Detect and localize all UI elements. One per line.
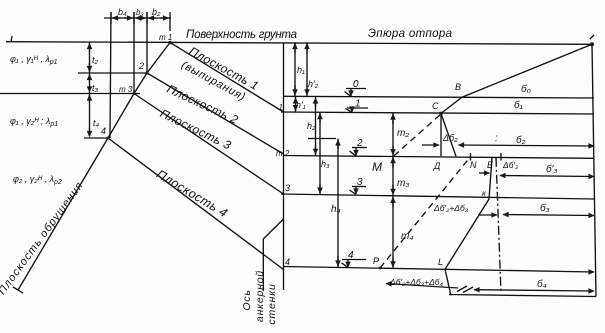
svg-text:анкерной: анкерной [254, 270, 266, 322]
dash-dot line [496, 158, 501, 294]
corner tiny mark [590, 35, 594, 39]
b dimension line [104, 17, 171, 19]
svg-text:Δб₂: Δб₂ [442, 133, 458, 143]
svg-text:2: 2 [138, 61, 144, 71]
m dimension vertical [392, 113, 394, 269]
svg-text:m₃: m₃ [397, 178, 409, 189]
leader arrow from delta label to boundary [478, 214, 497, 216]
point P dot [379, 267, 382, 270]
b dimension ticks [110, 12, 112, 24]
b extension vertical to point 4 [110, 12, 111, 138]
svg-text:б′₃: б′₃ [546, 163, 558, 175]
svg-text:б₀: б₀ [521, 83, 531, 95]
svg-text:б₁: б₁ [514, 99, 523, 111]
pressure envelope B line [441, 44, 592, 113]
delta sigma2prime dimension arrow [479, 172, 490, 174]
sigma3 dimension line [503, 215, 594, 216]
svg-text::: : [495, 133, 498, 144]
corner A dot [590, 42, 594, 46]
svg-text:т 2: т 2 [276, 149, 290, 158]
point C dot [439, 112, 443, 116]
svg-text:t₄: t₄ [93, 118, 100, 128]
collapse plane end tick [13, 287, 23, 293]
collapse plane line (Плоскость обрушения) [18, 43, 170, 291]
point т1 dot [168, 41, 171, 44]
sigma3prime dimension line [500, 176, 594, 177]
soil layer boundary y=93.5 [0, 93, 140, 95]
svg-text:Δб′₂: Δб′₂ [502, 160, 519, 170]
svg-text:1: 1 [355, 99, 361, 110]
svg-text:Д: Д [433, 161, 441, 171]
ground surface line [6, 42, 592, 45]
svg-text:h₃: h₃ [321, 159, 330, 169]
svg-text:3: 3 [357, 177, 363, 188]
svg-text:Эпюра отпора: Эпюра отпора [368, 28, 452, 40]
svg-text:h₁: h₁ [297, 65, 305, 75]
svg-text:1: 1 [279, 103, 283, 112]
svg-text:0: 0 [353, 79, 359, 90]
svg-text:b₃: b₃ [136, 8, 144, 17]
bottom line [449, 295, 596, 297]
boundary curve E-K-L [445, 158, 492, 296]
level 3 line [281, 194, 594, 199]
level 4 line with right arrow [284, 267, 595, 273]
tick at dash-dot on level 2 [500, 153, 502, 161]
svg-text:φ₁ , γ₁ᴴ , λр1: φ₁ , γ₁ᴴ , λр1 [10, 54, 58, 66]
svg-text:В: В [455, 82, 461, 92]
h3 dimension vertical [319, 112, 321, 194]
svg-text:h₂: h₂ [307, 121, 316, 131]
left edge tick [11, 36, 12, 42]
svg-text:Δб′₂+Δб₃+Δб₄: Δб′₂+Δб₃+Δб₄ [389, 277, 444, 287]
level marker 1 [347, 107, 368, 109]
b extension vertical to point т3 [133, 12, 135, 94]
svg-text:m₄: m₄ [401, 231, 413, 242]
plane 1 line [170, 42, 284, 112]
plane 4 line with jog [108, 138, 284, 270]
svg-text:h′₂: h′₂ [308, 79, 319, 89]
level 1 line [281, 112, 594, 114]
short reference line y=138.5 [308, 138, 336, 140]
b extension vertical to point 2 [146, 12, 148, 73]
svg-text:Плоскость 4: Плоскость 4 [154, 167, 230, 220]
svg-text:Ось: Ось [241, 289, 253, 310]
svg-text:б₃: б₃ [540, 202, 550, 214]
svg-text:С: С [432, 101, 439, 111]
svg-text:b₂: b₂ [152, 7, 161, 17]
C vertical to D [440, 113, 442, 156]
sigma4 dimension line [474, 290, 594, 291]
point 4 dot [107, 137, 110, 140]
svg-text:4: 4 [285, 257, 290, 267]
right border vertical [592, 44, 596, 296]
svg-text:Δб′₂+Δб₃: Δб′₂+Δб₃ [433, 203, 469, 213]
svg-text:т 1: т 1 [159, 33, 172, 42]
svg-text:N: N [470, 160, 477, 170]
svg-text:б₂: б₂ [516, 134, 526, 146]
level 0 line [284, 96, 595, 98]
plane 2 line [147, 73, 284, 154]
svg-text:t₃: t₃ [92, 83, 99, 93]
svg-text:Е: Е [487, 160, 494, 170]
h1 dimension vertical [294, 42, 296, 96]
b dimension arrows [113, 17, 122, 19]
svg-text:b₄: b₄ [118, 7, 127, 17]
b extension vertical at apex [169, 12, 171, 31]
svg-text:L: L [438, 257, 443, 267]
level marker 4 [342, 259, 366, 261]
svg-text:М: М [372, 160, 382, 174]
svg-text:б₄: б₄ [537, 278, 547, 290]
level marker 3 [352, 186, 366, 188]
svg-text:h₄: h₄ [331, 204, 341, 215]
svg-text:Плоскость обрушения: Плоскость обрушения [0, 180, 86, 297]
point т3 dot [133, 92, 136, 95]
svg-text:φ₂ , γ₂ᴴ , λр2: φ₂ , γ₂ᴴ , λр2 [13, 174, 62, 186]
callout leader to wall axis [263, 219, 283, 291]
svg-text:h′₁: h′₁ [296, 100, 306, 110]
dashed line P-N [380, 157, 470, 268]
h1prime dimension vertical [295, 96, 297, 112]
t dimension vertical [89, 42, 91, 136]
h2prime dimension vertical [306, 42, 308, 96]
svg-text:φ₁ , γ₂ᴴ ; λр1: φ₁ , γ₂ᴴ ; λр1 [10, 116, 58, 128]
svg-text:4: 4 [348, 250, 354, 261]
delta sigma2 dimension arrows [422, 144, 439, 146]
sigma2 dimension line [459, 145, 595, 146]
dashed line M-C [394, 114, 441, 156]
h4 dimension vertical [337, 139, 339, 268]
level marker 0 [346, 88, 366, 90]
svg-text:Р: Р [373, 256, 379, 266]
level marker 2 [352, 147, 367, 149]
sigma4 break marks [457, 286, 467, 292]
svg-text:m₂: m₂ [397, 128, 409, 139]
svg-text:стенки: стенки [266, 283, 278, 324]
extension line y=138 [84, 137, 108, 139]
svg-text:Поверхность грунта: Поверхность грунта [186, 29, 297, 41]
delta sum label underline arrow [386, 284, 458, 289]
plane 3 line [134, 94, 284, 195]
svg-text:t₂: t₂ [92, 55, 99, 65]
point 2 dot [146, 72, 149, 75]
svg-text:3: 3 [285, 183, 290, 193]
extension line y=73 [78, 72, 147, 74]
level 2 line [284, 156, 595, 159]
svg-text:4: 4 [101, 126, 106, 136]
anchor wall axis vertical [283, 43, 285, 290]
svg-text:т 3: т 3 [119, 85, 133, 94]
tick at N on level 2 [470, 153, 472, 161]
h2 dimension vertical [315, 97, 317, 156]
svg-text:2: 2 [356, 138, 363, 149]
C slant line [441, 113, 456, 156]
